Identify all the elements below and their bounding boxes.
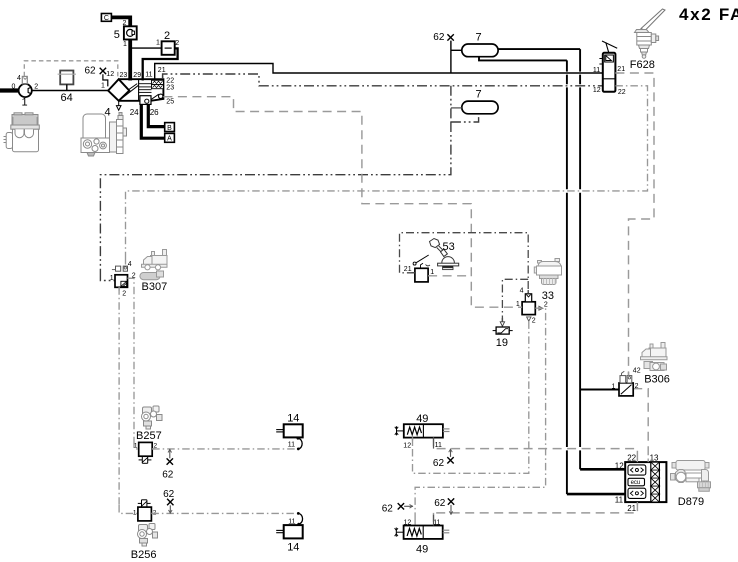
wire branch to B306 port 1 bbox=[580, 389, 619, 391]
compressor 1 symbol bbox=[19, 76, 32, 97]
wire dash-dot ending into B307 port 4 bbox=[125, 257, 127, 266]
svg-text:1: 1 bbox=[430, 269, 434, 276]
svg-text:62: 62 bbox=[433, 458, 445, 469]
svg-text:23: 23 bbox=[166, 85, 174, 92]
svg-text:11: 11 bbox=[593, 67, 600, 74]
svg-text:2: 2 bbox=[635, 383, 639, 390]
wire dash-dot B307 port2 right down to B257 port 1 bbox=[128, 278, 135, 440]
svg-text:4: 4 bbox=[520, 287, 524, 294]
connection ticks at dashed terminals bbox=[119, 73, 648, 513]
wire thick supply from left edge to compressor 1 bbox=[0, 88, 19, 92]
wire dash-dot 33 port2 right to 49b port 12 bbox=[415, 308, 545, 517]
hand control valve of 53 bbox=[413, 255, 429, 282]
valve 5 safety valve bbox=[124, 26, 137, 39]
wire dash-dot-dot branch down to tank 7b bbox=[451, 86, 479, 122]
F628 valve block bbox=[599, 41, 617, 92]
svg-text:A: A bbox=[167, 136, 172, 143]
svg-text:4x2 FA: 4x2 FA bbox=[679, 5, 738, 24]
wire long-dash 49a port 11 to D879 port 22 bbox=[434, 437, 638, 462]
svg-text:49: 49 bbox=[416, 543, 428, 555]
wire thick APU port 24 to A bbox=[141, 104, 164, 138]
wire thin to box 2 port 1 bbox=[130, 47, 161, 49]
svg-text:62: 62 bbox=[163, 489, 175, 500]
svg-text:F628: F628 bbox=[630, 59, 655, 71]
svg-text:24: 24 bbox=[130, 108, 139, 117]
svg-text:21: 21 bbox=[627, 504, 636, 513]
svg-text:12: 12 bbox=[404, 520, 412, 527]
svg-text:D879: D879 bbox=[678, 496, 704, 508]
port C box bbox=[101, 14, 111, 23]
icon D879 modulator drawing bbox=[671, 461, 711, 492]
svg-text:22: 22 bbox=[166, 77, 174, 84]
valve B307 bbox=[112, 266, 128, 287]
brake chamber 14a bbox=[276, 424, 303, 437]
svg-text:1: 1 bbox=[134, 443, 138, 450]
svg-text:11: 11 bbox=[435, 442, 442, 449]
svg-text:B: B bbox=[167, 125, 172, 132]
port A box bbox=[165, 133, 175, 142]
svg-text:12: 12 bbox=[106, 71, 114, 78]
wire dash-dot-dot tank 7b down and left bbox=[100, 122, 451, 271]
test point 62 left of 49b bbox=[398, 503, 413, 509]
spring brake chamber 49a bbox=[395, 424, 450, 437]
icon B257 valve drawing bbox=[142, 406, 163, 429]
svg-text:21: 21 bbox=[158, 67, 166, 74]
test point 62 below B257 line bbox=[167, 449, 173, 465]
svg-text:2: 2 bbox=[122, 291, 126, 298]
svg-text:21: 21 bbox=[617, 66, 625, 73]
wire dash-dot branch to pressure switch 19 bbox=[502, 279, 528, 322]
svg-text:ecu: ecu bbox=[631, 480, 641, 486]
icon compressor drawing bbox=[4, 113, 40, 152]
EBS modulator D879 bbox=[625, 462, 666, 502]
wire thin compressor to APU port 1 bbox=[32, 90, 108, 92]
svg-text:62: 62 bbox=[382, 503, 394, 514]
wire dashed governor line compressor port4 to APU port 12 bbox=[24, 61, 118, 79]
wire vertical feed to D879 port 12 with crossing gaps bbox=[579, 49, 581, 469]
svg-text:62: 62 bbox=[434, 498, 446, 509]
wire dash-dot 53 valve port 21 loop to 33 port 4 bbox=[400, 233, 529, 294]
wire long-dash F628 port 21 to B306 port 42 bbox=[615, 73, 654, 376]
wire long-dash 53 valve port 1 junction bbox=[428, 275, 471, 277]
wire tank 7a right port to vertical bbox=[498, 48, 580, 50]
svg-text:49: 49 bbox=[416, 413, 428, 425]
brake chamber 14b bbox=[276, 525, 303, 538]
wire dash-dot elbow into B256 port 1 bbox=[119, 505, 138, 513]
svg-text:14: 14 bbox=[287, 413, 299, 425]
svg-text:22: 22 bbox=[618, 89, 626, 96]
svg-text:B257: B257 bbox=[136, 430, 162, 442]
air tank 7b bbox=[451, 101, 498, 114]
port B box bbox=[165, 123, 175, 132]
svg-text:1: 1 bbox=[123, 41, 127, 48]
svg-text:11: 11 bbox=[288, 441, 295, 448]
svg-text:22: 22 bbox=[627, 454, 636, 463]
icon B306 valve drawing bbox=[641, 343, 668, 371]
svg-text:62: 62 bbox=[162, 470, 174, 481]
svg-text:64: 64 bbox=[61, 92, 73, 104]
svg-text:C: C bbox=[104, 15, 109, 22]
svg-text:33: 33 bbox=[542, 290, 554, 302]
wire thick valve5 down to APU port 23 bbox=[128, 40, 132, 81]
wire dash-dot B257 port 2 to chamber 14a bbox=[152, 448, 295, 450]
wire tank 7a bottom port to vertical bbox=[479, 57, 567, 61]
svg-text:14: 14 bbox=[287, 542, 299, 554]
wire dash-dot B307 port2 bottom down to B256 port 1 bbox=[118, 287, 120, 505]
wire dash-dot ending into 49b port 12 bbox=[414, 517, 416, 526]
test point 62 on 49b port 11 line bbox=[448, 498, 454, 514]
wire dash-dot B256 port 2 to chamber 14b bbox=[151, 512, 295, 514]
hose curl 14b port 11 bbox=[297, 512, 303, 525]
valve 33 quick release bbox=[522, 294, 535, 315]
wire dash-dot-dot elbow into B307 port 1 bbox=[100, 271, 115, 281]
svg-text:13: 13 bbox=[650, 454, 659, 463]
pressure switch 19 bbox=[493, 327, 513, 334]
svg-text:1: 1 bbox=[156, 40, 160, 47]
component 2 sensor box bbox=[162, 41, 175, 55]
svg-text:4: 4 bbox=[128, 261, 132, 268]
wire dash-dot-dot APU port 21/22 to F628 port 12 bbox=[163, 74, 603, 86]
svg-text:23: 23 bbox=[120, 72, 128, 79]
svg-text:42: 42 bbox=[633, 368, 641, 375]
svg-text:29: 29 bbox=[133, 72, 141, 79]
svg-text:2: 2 bbox=[164, 30, 170, 42]
icon F628 hand brake valve drawing bbox=[635, 9, 666, 58]
icon 53 hand lever bbox=[426, 239, 459, 270]
svg-text:0: 0 bbox=[12, 83, 16, 90]
wire box2 port2 return to APU port 29 bbox=[143, 48, 178, 80]
wire dash-dot 33 port2 bottom to 49a port 12 bbox=[413, 321, 529, 473]
APU air dryer unit 4 body bbox=[108, 79, 163, 104]
wire stem 49a port 11 bbox=[433, 437, 435, 448]
svg-text:7: 7 bbox=[476, 32, 482, 44]
svg-text:11: 11 bbox=[433, 520, 440, 527]
air tank 7a bbox=[451, 44, 498, 57]
icon B256 valve drawing bbox=[138, 524, 158, 547]
svg-text:1: 1 bbox=[133, 510, 137, 517]
valve B306 bbox=[619, 371, 633, 396]
wire long-dash APU port 25 trailer line to 33 port 1 bbox=[163, 97, 522, 308]
test point 62 at tank 7a bbox=[447, 34, 453, 73]
arrow 33 port 2 bottom bbox=[527, 317, 531, 321]
arrow 33 port 2 right bbox=[539, 306, 543, 310]
svg-text:21: 21 bbox=[404, 266, 412, 273]
APU exhaust arrow bbox=[116, 101, 121, 110]
svg-text:1: 1 bbox=[612, 383, 616, 390]
hose curl 14a port 11 bbox=[297, 437, 303, 450]
svg-text:7: 7 bbox=[476, 89, 482, 101]
svg-text:11: 11 bbox=[615, 496, 624, 505]
wire dash-dot ending into 49a port 12 bbox=[412, 437, 414, 445]
svg-text:1: 1 bbox=[101, 83, 105, 90]
svg-text:1: 1 bbox=[110, 275, 114, 282]
svg-text:5: 5 bbox=[114, 29, 120, 41]
arrow into 19 bbox=[500, 322, 504, 326]
wire dash-dot elbow into B257 port 1 bbox=[134, 441, 139, 449]
wire thick C to valve 5 bbox=[111, 17, 130, 26]
svg-text:2: 2 bbox=[34, 83, 38, 90]
valve B257 bbox=[139, 442, 153, 463]
svg-text:12: 12 bbox=[403, 442, 411, 449]
svg-text:1: 1 bbox=[22, 97, 28, 109]
svg-text:12: 12 bbox=[615, 461, 624, 470]
icon B307 valve drawing bbox=[140, 250, 167, 280]
wire vertical feed to D879 port 11 with crossing gaps bbox=[566, 60, 568, 494]
icon 33 truck drawing bbox=[534, 259, 561, 285]
svg-text:26: 26 bbox=[150, 108, 159, 117]
test point 62 at APU port 1 bbox=[100, 68, 108, 87]
component 64 pressure sensor box bbox=[58, 71, 76, 91]
wire long-dash B306 port 2 to D879 port 13 bbox=[633, 389, 648, 462]
svg-text:12: 12 bbox=[593, 87, 601, 94]
wire APU port 11 to F628 port 11 bbox=[155, 64, 603, 81]
svg-text:B307: B307 bbox=[142, 281, 168, 293]
spring brake chamber 49b bbox=[395, 526, 450, 539]
valve B256 bbox=[138, 500, 152, 521]
svg-text:2: 2 bbox=[544, 302, 548, 309]
svg-text:19: 19 bbox=[496, 337, 508, 349]
svg-text:2: 2 bbox=[532, 318, 536, 325]
test point 62 on 49a port 11 line bbox=[447, 449, 453, 464]
svg-text:25: 25 bbox=[166, 99, 174, 106]
svg-text:11: 11 bbox=[145, 72, 152, 79]
svg-text:11: 11 bbox=[288, 519, 295, 526]
svg-text:62: 62 bbox=[85, 66, 97, 77]
wire dash-dot F628 port 22 down and left to B307 port 4 bbox=[126, 86, 648, 257]
svg-text:B256: B256 bbox=[131, 549, 157, 561]
test point 62 above B256 line bbox=[167, 499, 173, 514]
wire thick APU port 26 to B bbox=[148, 104, 164, 126]
wire stem 49b port 11 bbox=[433, 515, 435, 526]
svg-text:B306: B306 bbox=[644, 374, 670, 386]
svg-text:2: 2 bbox=[175, 40, 179, 47]
wire long-dash D879 port 21 to 49b port 11 bbox=[434, 502, 638, 525]
svg-text:53: 53 bbox=[443, 241, 455, 253]
svg-text:4: 4 bbox=[17, 75, 21, 82]
icon air dryer drawing bbox=[81, 113, 127, 157]
svg-text:62: 62 bbox=[433, 32, 445, 43]
